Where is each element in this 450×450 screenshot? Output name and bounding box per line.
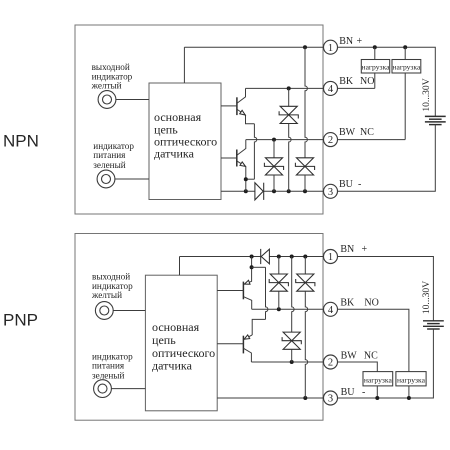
TVS suppressor VD7 (PNP, 1-3) bbox=[297, 274, 314, 291]
junction dot VD7 / rail3 (PNP) bbox=[303, 396, 307, 400]
wire RL4 to rail3 bbox=[408, 386, 410, 398]
svg-text:4: 4 bbox=[328, 305, 334, 316]
junction dot rail4 / TVS VD2 (NPN) bbox=[287, 86, 291, 90]
VT1 emitter bbox=[237, 110, 254, 124]
svg-text:NC: NC bbox=[364, 350, 378, 361]
VT2 collector bbox=[237, 140, 246, 155]
wire rail1 to VD3 (hops over rail4, rail2) bbox=[305, 47, 307, 158]
svg-text:датчика: датчика bbox=[154, 147, 195, 161]
wire RL3 to rail3 bbox=[376, 386, 378, 398]
sensor housing outline (NPN) bbox=[75, 25, 323, 214]
junction dot VD6 / rail1 (PNP) bbox=[277, 255, 281, 259]
svg-text:-: - bbox=[358, 179, 361, 190]
output indicator HL1 yellow (NPN) bbox=[98, 91, 116, 109]
svg-text:цепь: цепь bbox=[152, 333, 176, 347]
wire RL1 to terminal4 wire bbox=[374, 73, 376, 88]
battery GB1 10...30V (NPN) bbox=[425, 115, 446, 117]
wire emitter bypass top (PNP) bbox=[252, 266, 266, 268]
wire HL3 to U2 bbox=[113, 310, 145, 312]
wire battery minus to terminal3 (NPN) bbox=[338, 125, 436, 192]
reverse protection diode VD5 (PNP) bbox=[260, 249, 262, 264]
wire U1 to VT1 base bbox=[221, 105, 237, 107]
wire to load RL2 top bbox=[404, 47, 406, 59]
svg-text:зеленый: зеленый bbox=[93, 160, 125, 170]
wire U1 to VT2 base bbox=[221, 157, 237, 159]
wire emitter bypass step (PNP) bbox=[252, 319, 265, 335]
junction dot VD8 / rail1 (PNP) bbox=[290, 255, 294, 259]
wire U2 to VT4 base bbox=[217, 343, 243, 345]
wire U2 top to +rail (PNP) bbox=[179, 257, 181, 276]
output indicator HL3 yellow (PNP) bbox=[95, 302, 113, 320]
transistor VT4 base bar (PNP) bbox=[242, 336, 244, 354]
junction dot emitters / rail3 (NPN) bbox=[244, 189, 248, 193]
terminal pin 2 BW (PNP) bbox=[324, 355, 338, 369]
svg-text:BN: BN bbox=[340, 244, 354, 255]
svg-text:NPN: NPN bbox=[3, 131, 39, 150]
svg-text:+: + bbox=[362, 244, 368, 255]
VT1 emitter arrow (NPN) bbox=[240, 110, 246, 115]
svg-text:NO: NO bbox=[364, 298, 378, 309]
wire VT4 collector to terminal 2 rail (node 2, PNP) bbox=[251, 361, 324, 363]
svg-text:желтый: желтый bbox=[91, 80, 122, 90]
junction dot emitter bypass node (PNP) bbox=[250, 265, 254, 269]
svg-text:BN: BN bbox=[339, 36, 353, 47]
svg-text:датчика: датчика bbox=[152, 359, 193, 373]
power indicator HL4 green (PNP) bbox=[94, 380, 112, 398]
VT2 emitter bbox=[237, 161, 246, 166]
transistor VT1 base bar (NPN) bbox=[236, 97, 238, 115]
terminal pin 1 BN (PNP) bbox=[324, 250, 338, 264]
junction dot RL3 / rail3 (PNP) bbox=[375, 396, 379, 400]
wire minus rail BU segment B (node 3, NPN) bbox=[264, 190, 324, 192]
svg-text:BK: BK bbox=[339, 76, 354, 87]
wire battery minus to terminal3 (PNP) bbox=[338, 329, 434, 398]
wire VD6 to rail4 bbox=[278, 291, 280, 309]
junction dot VD4 / rail3 (NPN) bbox=[272, 189, 276, 193]
wire VD3 to rail3 bbox=[304, 175, 306, 191]
svg-text:BK: BK bbox=[340, 298, 355, 309]
wire VD2 to rail3 (hop over rail2) bbox=[289, 124, 291, 192]
wire +rail BN segment B (node 1, PNP) bbox=[270, 256, 325, 258]
wire terminal2 to RL2 (NPN) bbox=[338, 139, 406, 141]
terminal pin 4 BK (PNP) bbox=[324, 302, 338, 316]
svg-text:нагрузка: нагрузка bbox=[362, 63, 391, 72]
terminal pin 3 BU (NPN) bbox=[324, 184, 338, 198]
svg-text:желтый: желтый bbox=[91, 290, 122, 300]
terminal pin 3 BU (PNP) bbox=[324, 391, 338, 405]
TVS suppressor VD2 (NPN, 4-3) bbox=[280, 106, 297, 123]
wire VD7 to rail3 (hops over rail4, rail2) bbox=[305, 291, 307, 398]
svg-text:-: - bbox=[362, 387, 365, 398]
svg-text:4: 4 bbox=[328, 84, 334, 95]
VT3 emitter bbox=[244, 257, 252, 285]
wire RL2 to terminal2 wire bbox=[404, 73, 406, 140]
wire rail4 to VD2 bbox=[288, 88, 290, 106]
terminal pin 1 BN (NPN) bbox=[324, 40, 338, 54]
VT3 collector bbox=[244, 297, 252, 310]
wire terminal4 to load RL4 (PNP) bbox=[338, 309, 409, 371]
wire rail2 to VD4 bbox=[273, 140, 275, 158]
wire VT3 collector to terminal 4 rail (node 4, PNP) bbox=[252, 308, 324, 310]
wire rail1 to VD6 bbox=[278, 257, 280, 275]
reverse protection diode VD1 (NPN) bbox=[255, 183, 263, 200]
main circuit block U2 (PNP) bbox=[145, 275, 217, 411]
transistor VT2 base bar (NPN) bbox=[236, 150, 238, 167]
transistor VT3 base bar (PNP) bbox=[242, 282, 244, 300]
svg-text:1: 1 bbox=[328, 252, 333, 263]
svg-text:+: + bbox=[357, 36, 363, 47]
svg-text:3: 3 bbox=[328, 187, 333, 198]
wire U2 to minus rail BU (node 3, PNP) bbox=[217, 397, 324, 399]
sensor housing outline (PNP) bbox=[75, 234, 323, 421]
svg-text:BW: BW bbox=[339, 127, 356, 138]
wire VD8 to rail2 bbox=[291, 349, 293, 362]
junction dot VD3 / rail3 (NPN) bbox=[303, 189, 307, 193]
TVS suppressor VD4 (NPN, 2-3) bbox=[265, 158, 282, 175]
svg-text:PNP: PNP bbox=[3, 311, 38, 330]
junction dot load RL1 (NPN) bbox=[373, 45, 377, 49]
svg-text:10...30V: 10...30V bbox=[421, 281, 432, 314]
load RL4 (PNP) bbox=[396, 372, 426, 386]
svg-text:питания: питания bbox=[93, 150, 126, 160]
svg-text:2: 2 bbox=[328, 358, 333, 369]
wire VT1 emitter join to emitter node bbox=[246, 178, 255, 180]
wire rail1 to VD7 bbox=[304, 257, 306, 275]
wire terminal2 to load RL3 (PNP) bbox=[338, 362, 378, 372]
wire rail1 to VD8 (hop over rail4) bbox=[292, 257, 294, 333]
load RL3 (PNP) bbox=[363, 372, 393, 386]
power indicator HL2 green (NPN) bbox=[97, 170, 115, 188]
svg-text:BU: BU bbox=[341, 387, 356, 398]
wire emitter bypass down (hop over rail4) bbox=[266, 267, 268, 319]
svg-text:нагрузка: нагрузка bbox=[392, 63, 421, 72]
junction dot emitter node (NPN) bbox=[244, 177, 248, 181]
wire terminal1 to battery (PNP) bbox=[338, 257, 434, 321]
VT4 emitter bbox=[244, 335, 253, 340]
junction dot VD8 / rail2 (PNP) bbox=[290, 360, 294, 364]
terminal pin 2 BW (NPN) bbox=[324, 133, 338, 147]
VT2 emitter arrow (NPN) bbox=[240, 162, 246, 167]
wire U1 to minus rail BU segment A (node 3, NPN) bbox=[221, 190, 255, 192]
wire HL2 to U1 bbox=[115, 178, 149, 180]
VT1 collector bbox=[237, 88, 245, 103]
svg-text:NC: NC bbox=[360, 127, 374, 138]
wire collector VT2 to terminal 2 rail (node 2, NPN) bbox=[246, 139, 324, 141]
wire VD4 to rail3 bbox=[273, 175, 275, 191]
svg-text:3: 3 bbox=[328, 394, 333, 405]
load RL1 (NPN) bbox=[361, 60, 389, 74]
svg-text:BW: BW bbox=[341, 350, 358, 361]
svg-text:BU: BU bbox=[339, 179, 354, 190]
junction dot +rail / TVS VD3 (NPN) bbox=[303, 45, 307, 49]
wire terminal1 to battery (NPN) bbox=[338, 47, 436, 116]
wire HL4 to U2 bbox=[111, 388, 145, 390]
junction dot rail2 / TVS VD4 (NPN) bbox=[272, 138, 276, 142]
svg-text:нагрузка: нагрузка bbox=[364, 376, 393, 385]
TVS suppressor VD3 (NPN, 1-3) bbox=[296, 158, 313, 175]
junction dot VT3 emitter / rail1 (PNP) bbox=[250, 255, 254, 259]
wire +rail BN segment A (node 1, PNP) bbox=[180, 256, 261, 258]
TVS suppressor VD6 (PNP, 1-4) bbox=[270, 274, 287, 291]
wire +rail BN (node 1, NPN) bbox=[184, 46, 324, 48]
svg-text:зеленый: зеленый bbox=[92, 370, 124, 380]
svg-text:10...30V: 10...30V bbox=[421, 78, 432, 111]
svg-text:NO: NO bbox=[360, 76, 374, 87]
battery GB2 10...30V (PNP) bbox=[423, 320, 444, 322]
wire to load RL1 top bbox=[374, 47, 376, 59]
wire U1 top to +rail bbox=[183, 47, 185, 83]
wire VT1 emitter down (hop over rail2) bbox=[254, 124, 256, 179]
junction dot VD7 / rail1 (PNP) bbox=[303, 255, 307, 259]
wire collector VT1 to terminal 4 rail (node 4, NPN) bbox=[246, 87, 325, 89]
junction dot load RL2 (NPN) bbox=[403, 45, 407, 49]
wire HL1 to U1 bbox=[116, 99, 149, 101]
junction dot VD2 / rail3 (NPN) bbox=[287, 189, 291, 193]
junction dot RL4 / rail3 (PNP) bbox=[407, 396, 411, 400]
wire VT2 emitter to rail3 bbox=[245, 167, 247, 192]
wire terminal4 to RL1 (NPN) bbox=[338, 87, 375, 89]
svg-text:выходной: выходной bbox=[92, 271, 130, 281]
junction dot VD6 / rail4 (PNP) bbox=[277, 307, 281, 311]
terminal pin 4 BK (NPN) bbox=[324, 81, 338, 95]
svg-text:1: 1 bbox=[328, 43, 333, 54]
main circuit block U1 (NPN) bbox=[149, 83, 221, 200]
wire U2 to VT3 base bbox=[217, 290, 243, 292]
svg-text:2: 2 bbox=[328, 135, 333, 146]
svg-text:нагрузка: нагрузка bbox=[397, 376, 426, 385]
TVS suppressor VD8 (PNP, 1-2) bbox=[283, 332, 300, 349]
svg-text:питания: питания bbox=[92, 361, 125, 371]
load RL2 (NPN) bbox=[392, 60, 421, 74]
VT4 emitter arrow (PNP) bbox=[244, 335, 250, 339]
VT3 emitter arrow (PNP) bbox=[244, 280, 250, 284]
VT4 collector bbox=[244, 348, 252, 362]
